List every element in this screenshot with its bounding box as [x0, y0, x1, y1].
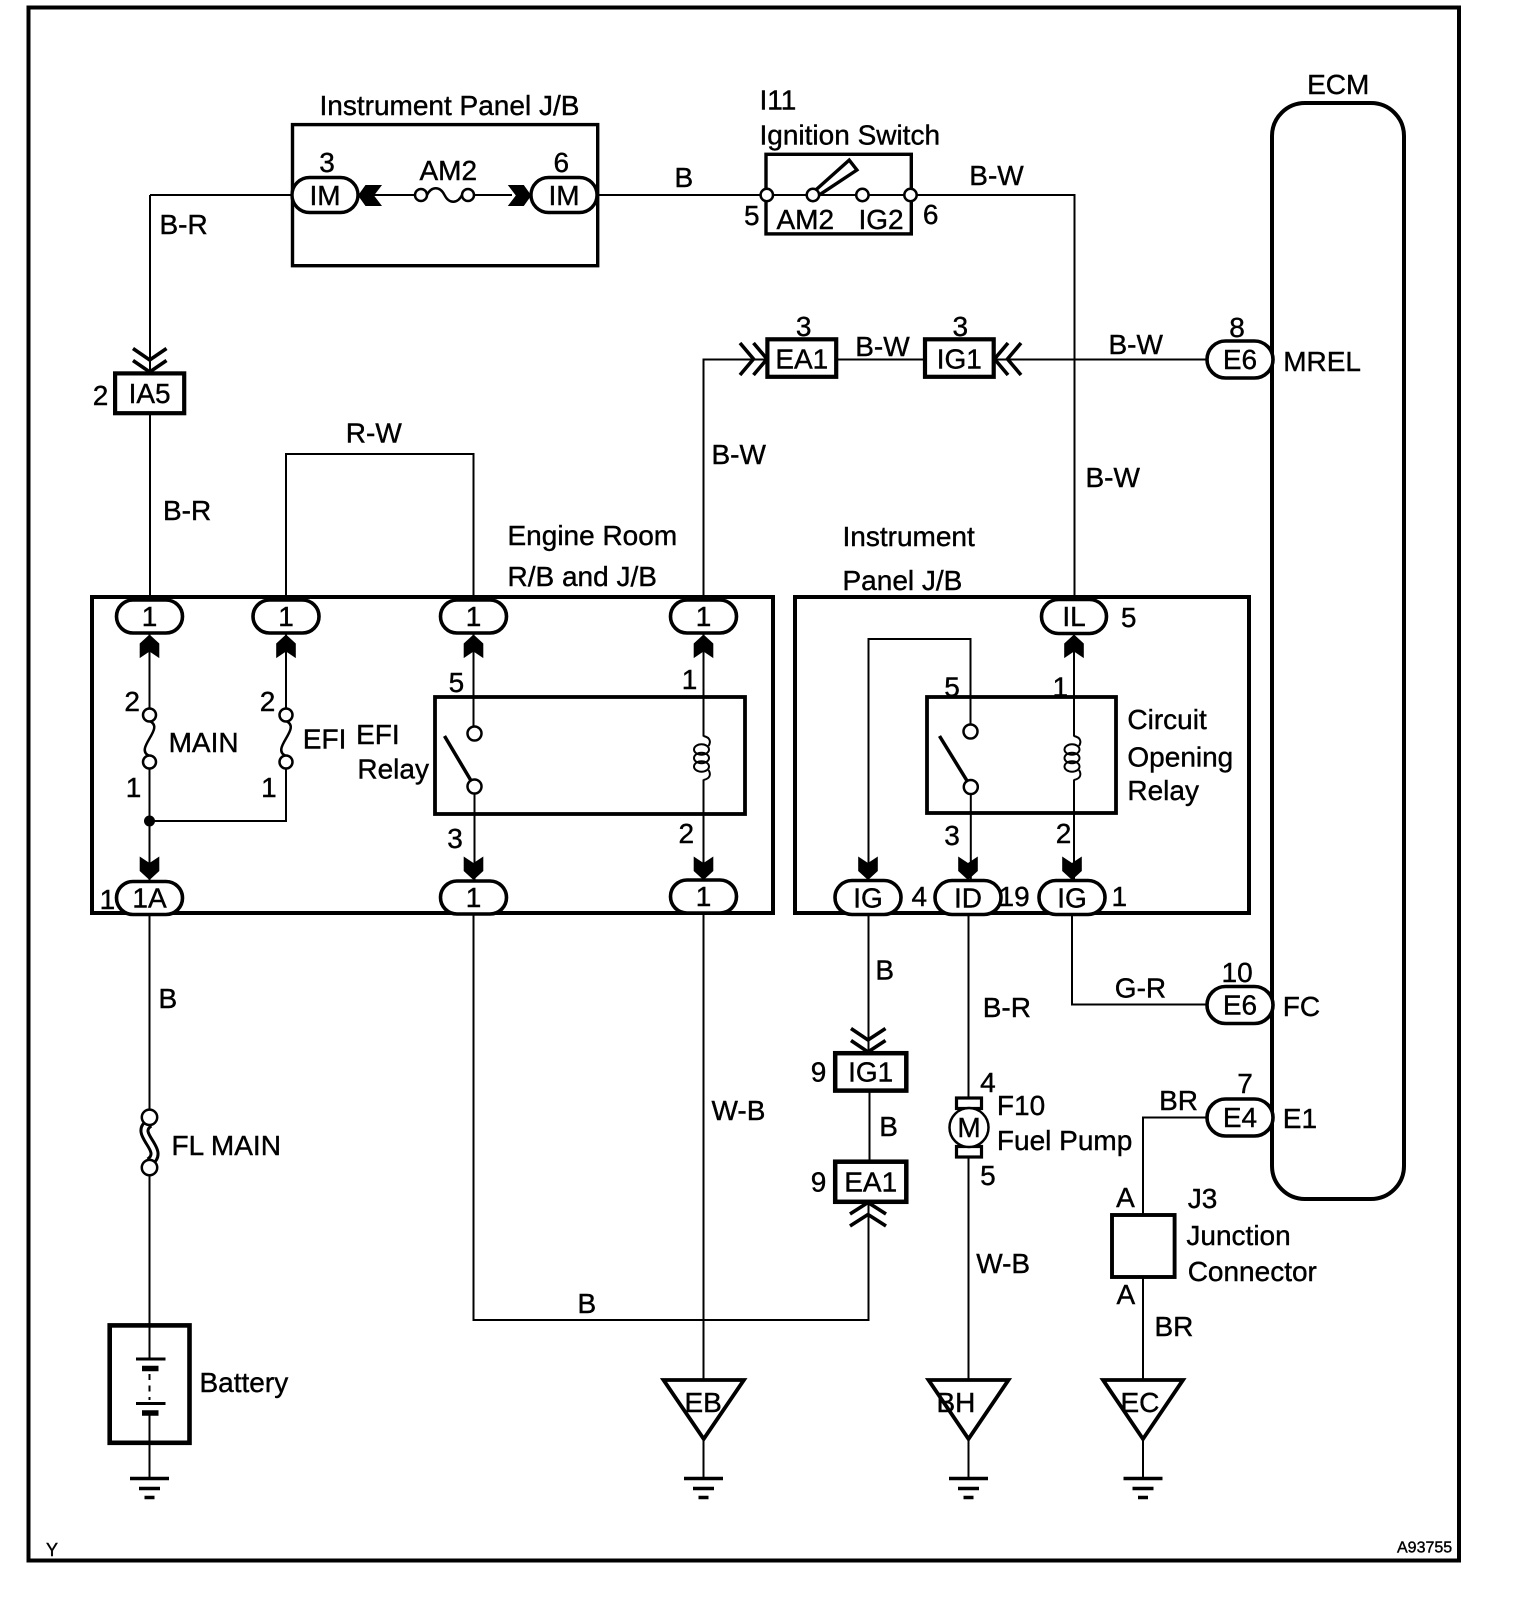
svg-text:8: 8 — [1229, 312, 1245, 343]
svg-text:1: 1 — [126, 772, 142, 803]
svg-text:A: A — [1116, 1182, 1135, 1213]
svg-text:B-W: B-W — [1109, 329, 1164, 360]
svg-text:EFI: EFI — [303, 724, 347, 755]
svg-text:MAIN: MAIN — [169, 727, 239, 758]
svg-text:B-W: B-W — [712, 439, 767, 470]
svg-text:Ignition Switch: Ignition Switch — [760, 120, 941, 151]
svg-text:2: 2 — [124, 686, 140, 717]
svg-text:6: 6 — [923, 199, 939, 230]
svg-text:2: 2 — [679, 818, 695, 849]
svg-text:ID: ID — [954, 883, 982, 914]
svg-text:FL MAIN: FL MAIN — [172, 1130, 281, 1161]
svg-text:1: 1 — [696, 601, 712, 632]
svg-text:I11: I11 — [760, 85, 797, 116]
svg-text:5: 5 — [944, 672, 960, 703]
svg-text:5: 5 — [980, 1160, 996, 1191]
svg-text:5: 5 — [449, 667, 465, 698]
svg-text:B-R: B-R — [983, 992, 1031, 1023]
svg-text:4: 4 — [980, 1067, 996, 1098]
svg-text:3: 3 — [796, 311, 812, 342]
svg-text:Instrument Panel J/B: Instrument Panel J/B — [320, 90, 580, 121]
svg-text:B-R: B-R — [160, 209, 208, 240]
svg-text:2: 2 — [260, 686, 276, 717]
svg-text:FC: FC — [1283, 991, 1320, 1022]
svg-text:A93755: A93755 — [1397, 1540, 1452, 1557]
svg-text:Panel J/B: Panel J/B — [843, 565, 963, 596]
svg-text:E6: E6 — [1223, 990, 1257, 1021]
svg-text:Connector: Connector — [1188, 1256, 1317, 1287]
svg-text:5: 5 — [1121, 602, 1137, 633]
svg-text:7: 7 — [1237, 1068, 1253, 1099]
svg-text:1: 1 — [142, 601, 158, 632]
svg-text:AM2: AM2 — [420, 155, 478, 186]
svg-text:IG: IG — [853, 883, 883, 914]
svg-text:1: 1 — [466, 601, 482, 632]
svg-text:B-W: B-W — [1086, 462, 1141, 493]
svg-text:IG1: IG1 — [937, 344, 982, 375]
svg-text:R/B and J/B: R/B and J/B — [508, 561, 657, 592]
svg-text:IG: IG — [1057, 883, 1087, 914]
svg-text:IM: IM — [548, 180, 579, 211]
svg-text:W-B: W-B — [712, 1095, 766, 1126]
svg-text:5: 5 — [744, 200, 760, 231]
svg-text:BR: BR — [1159, 1085, 1198, 1116]
svg-text:1: 1 — [696, 881, 712, 912]
svg-text:Fuel Pump: Fuel Pump — [997, 1125, 1132, 1156]
svg-text:1: 1 — [278, 601, 294, 632]
svg-text:2: 2 — [1056, 818, 1072, 849]
svg-text:EA1: EA1 — [844, 1166, 897, 1197]
svg-text:B: B — [879, 1111, 898, 1142]
svg-text:IG1: IG1 — [848, 1057, 893, 1088]
svg-text:Circuit: Circuit — [1127, 704, 1207, 735]
svg-text:M: M — [957, 1112, 980, 1143]
svg-text:B: B — [159, 983, 178, 1014]
svg-text:EA1: EA1 — [775, 344, 828, 375]
svg-text:B: B — [875, 955, 894, 986]
svg-text:10: 10 — [1222, 957, 1253, 988]
svg-text:19: 19 — [999, 881, 1030, 912]
svg-text:1: 1 — [466, 882, 482, 913]
svg-text:E4: E4 — [1223, 1102, 1257, 1133]
svg-text:6: 6 — [554, 147, 570, 178]
svg-text:A: A — [1117, 1279, 1136, 1310]
svg-text:Battery: Battery — [200, 1367, 289, 1398]
svg-text:J3: J3 — [1188, 1183, 1218, 1214]
svg-text:3: 3 — [319, 147, 335, 178]
svg-text:E6: E6 — [1223, 344, 1257, 375]
svg-text:EFI: EFI — [356, 719, 400, 750]
svg-text:MREL: MREL — [1283, 346, 1361, 377]
svg-text:3: 3 — [447, 823, 463, 854]
svg-text:1: 1 — [261, 772, 277, 803]
svg-text:1: 1 — [682, 664, 698, 695]
svg-text:3: 3 — [944, 820, 960, 851]
svg-text:Opening: Opening — [1127, 742, 1233, 773]
svg-text:1: 1 — [1053, 672, 1069, 703]
svg-text:2: 2 — [93, 380, 109, 411]
svg-text:9: 9 — [811, 1057, 827, 1088]
svg-text:9: 9 — [811, 1167, 827, 1198]
svg-text:3: 3 — [953, 311, 969, 342]
svg-text:Junction: Junction — [1186, 1220, 1290, 1251]
svg-text:1A: 1A — [132, 883, 167, 914]
svg-text:EC: EC — [1121, 1387, 1160, 1418]
svg-text:BR: BR — [1155, 1311, 1194, 1342]
svg-text:W-B: W-B — [976, 1248, 1030, 1279]
svg-text:IL: IL — [1062, 601, 1085, 632]
svg-text:Engine Room: Engine Room — [508, 520, 678, 551]
svg-text:E1: E1 — [1283, 1103, 1317, 1134]
svg-text:ECM: ECM — [1307, 69, 1369, 100]
svg-text:IA5: IA5 — [129, 378, 171, 409]
svg-text:IM: IM — [309, 180, 340, 211]
svg-text:Relay: Relay — [357, 754, 429, 785]
svg-text:1: 1 — [1112, 881, 1128, 912]
svg-text:B-R: B-R — [163, 495, 211, 526]
svg-text:R-W: R-W — [346, 418, 403, 449]
svg-text:Relay: Relay — [1127, 775, 1199, 806]
svg-text:BH: BH — [937, 1387, 976, 1418]
svg-text:G-R: G-R — [1115, 973, 1166, 1004]
svg-text:IG2: IG2 — [859, 204, 904, 235]
svg-text:4: 4 — [912, 881, 928, 912]
svg-text:B-W: B-W — [855, 331, 910, 362]
svg-text:1: 1 — [100, 884, 116, 915]
svg-text:AM2: AM2 — [777, 204, 835, 235]
svg-text:B-W: B-W — [969, 160, 1024, 191]
svg-text:F10: F10 — [997, 1090, 1045, 1121]
svg-text:B: B — [578, 1288, 597, 1319]
svg-text:Instrument: Instrument — [843, 521, 975, 552]
svg-text:Y: Y — [46, 1540, 58, 1560]
svg-text:EB: EB — [685, 1387, 722, 1418]
svg-text:B: B — [675, 162, 694, 193]
